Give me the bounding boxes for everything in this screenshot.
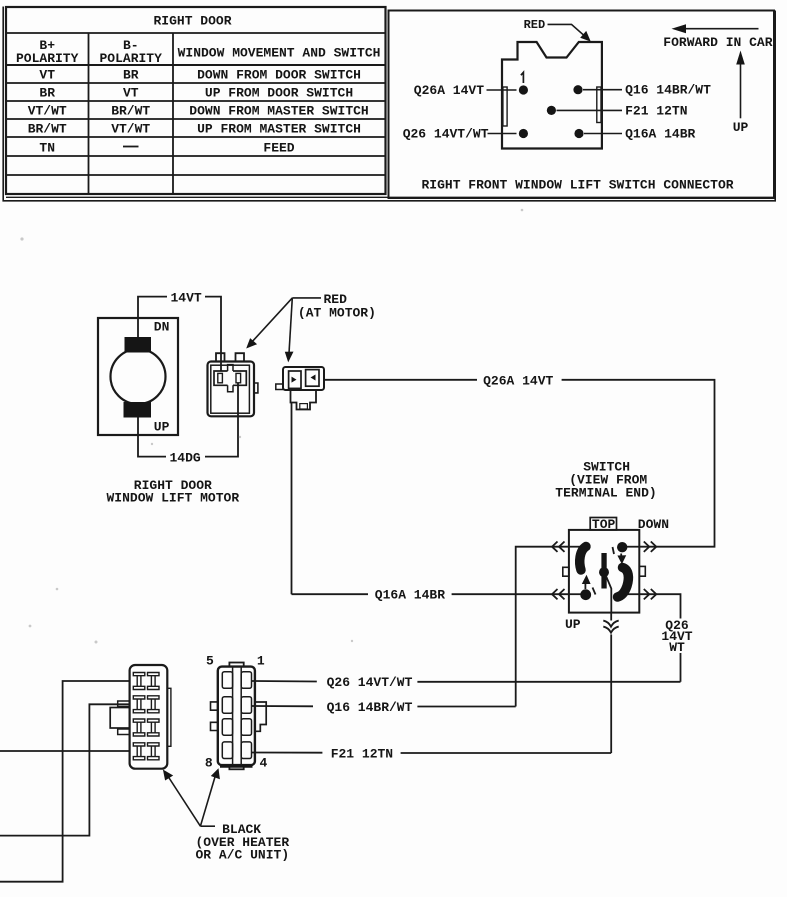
connector C1 right bump — [254, 383, 258, 393]
connector C4 left tab upper — [211, 702, 218, 710]
svg-text:UP FROM DOOR SWITCH: UP FROM DOOR SWITCH — [205, 86, 353, 101]
leader to pin B — [583, 89, 622, 91]
table row line 3 — [6, 118, 386, 120]
svg-text:Q26A 14VT: Q26A 14VT — [414, 83, 484, 98]
connector C1 outer shell — [208, 362, 255, 417]
svg-text:14VT: 14VT — [171, 290, 202, 305]
leader arrow to C1 — [251, 298, 293, 344]
connector C4 cavity r1 right — [241, 672, 251, 689]
svg-text:VT/WT: VT/WT — [111, 122, 150, 137]
svg-text:POLARITY: POLARITY — [16, 51, 79, 66]
connector C4 cavity r4 left — [222, 742, 232, 759]
svg-text:FORWARD IN CAR: FORWARD IN CAR — [663, 35, 772, 50]
connector C4 cavity r3 left — [222, 719, 232, 736]
table row line under title — [6, 32, 386, 34]
wire switch bottom right to Q26 vertical — [639, 594, 680, 618]
switch TOP tag box — [590, 518, 616, 530]
svg-text:8: 8 — [205, 756, 213, 771]
svg-text:RED: RED — [524, 18, 546, 32]
wire Q26 14VT/WT right segment — [417, 681, 680, 683]
motor brush bottom — [124, 402, 152, 418]
inline connector chevrons — [603, 621, 618, 633]
connector C4 left tab lower — [211, 722, 218, 730]
wire Q26A 14VT to switch down — [562, 380, 715, 547]
connector C3 left tab upper — [118, 701, 130, 707]
wire Q16 14BR/WT left segment — [252, 705, 314, 707]
wire motor top to 14VT — [138, 297, 167, 337]
svg-text:Q26A 14VT: Q26A 14VT — [483, 373, 553, 388]
chevron terminal left bottom — [552, 589, 565, 599]
svg-text:(AT MOTOR): (AT MOTOR) — [298, 305, 376, 320]
table row line 4 — [6, 136, 386, 138]
connector C3 left tab big — [110, 708, 129, 729]
switch left arrow up — [584, 582, 586, 589]
svg-text:DOWN FROM DOOR SWITCH: DOWN FROM DOOR SWITCH — [197, 68, 361, 83]
svg-text:Q16 14BR/WT: Q16 14BR/WT — [625, 83, 711, 98]
terminal r1c1 — [133, 673, 145, 690]
svg-text:Q26 14VT/WT: Q26 14VT/WT — [327, 675, 413, 690]
connector C2 bottom box — [300, 404, 308, 409]
switch left side tab — [563, 567, 569, 576]
connector C1 terminal stub up — [228, 365, 233, 371]
terminal r3c2 — [148, 719, 160, 736]
wire inline connector to F21 — [610, 635, 612, 754]
pin D Q26 14VT/WT — [519, 129, 528, 138]
leader arrow to C4 — [200, 774, 216, 827]
svg-text:Q16A 14BR: Q16A 14BR — [625, 126, 695, 141]
pin C F21 12TN — [547, 106, 556, 115]
connector C1 terminal right bracket — [233, 371, 246, 385]
connector C1 terminal left bracket — [214, 371, 228, 385]
leader to pin C — [557, 109, 623, 111]
connector C2 terminal right — [306, 370, 319, 387]
svg-text:DOWN FROM MASTER SWITCH: DOWN FROM MASTER SWITCH — [189, 104, 368, 119]
svg-text:BR: BR — [39, 86, 55, 101]
table column line 1 — [88, 33, 90, 194]
table column line 2 — [172, 33, 174, 194]
connector C4 cavity r4 right — [241, 742, 251, 759]
pin B Q16 14BR/WT — [573, 85, 582, 94]
connector J1 left lock slot — [503, 87, 507, 126]
leader arrow to C2 — [289, 298, 292, 355]
motor M1 armature circle — [111, 349, 166, 404]
arrow FORWARD IN CAR — [684, 28, 759, 30]
svg-text:F21 12TN: F21 12TN — [625, 103, 687, 118]
wire stub into box left top — [569, 546, 582, 548]
table row line 5 — [6, 155, 386, 157]
svg-text:WINDOW MOVEMENT AND SWITCH: WINDOW MOVEMENT AND SWITCH — [178, 46, 381, 61]
table row line under header — [6, 64, 386, 66]
switch common diagonal — [606, 576, 611, 613]
svg-text:TN: TN — [39, 141, 55, 156]
connector C2 terminal mark right — [311, 375, 316, 381]
svg-text:5: 5 — [206, 653, 214, 668]
connector C1 terminal bar left — [218, 373, 223, 382]
switch center dot — [599, 567, 609, 577]
connector C3 left tab lower — [118, 729, 130, 735]
connector C4 right bump — [255, 702, 266, 731]
leader to pin A — [487, 89, 517, 91]
svg-text:VT/WT: VT/WT — [28, 104, 67, 119]
svg-text:BR/WT: BR/WT — [111, 104, 150, 119]
connector C1 inner shell — [211, 365, 250, 413]
switch right side tab — [639, 566, 645, 576]
wire C3 pin to left edge top — [0, 681, 130, 882]
switch contact right dot — [617, 542, 627, 552]
connector C3 terminals grid — [133, 673, 159, 760]
outer frame inner bottom line — [6, 196, 774, 198]
svg-text:UP FROM MASTER SWITCH: UP FROM MASTER SWITCH — [197, 122, 361, 137]
connector C1 terminal bar right — [236, 373, 241, 382]
leader RED AT MOTOR — [292, 297, 321, 299]
switch right tick — [613, 547, 615, 554]
terminal r2c1 — [133, 696, 145, 713]
svg-text:VT: VT — [123, 86, 139, 101]
svg-text:14DG: 14DG — [170, 450, 201, 465]
table row line 2 — [6, 100, 386, 102]
wire Q26A 14VT from C2 — [324, 379, 477, 381]
connector C2 terminal mark left — [292, 377, 297, 383]
table row line 6 — [6, 174, 386, 176]
wire stub into box right top — [626, 546, 639, 548]
switch center common bar — [601, 553, 606, 589]
svg-text:Q16A 14BR: Q16A 14BR — [375, 588, 445, 603]
wire switch top left to Q16 vertical — [516, 547, 569, 707]
table RIGHT DOOR border — [6, 7, 386, 194]
connector J1 body outline — [502, 42, 602, 149]
connector C3 right rib — [167, 688, 171, 746]
connector C4 bottom tab — [229, 765, 243, 769]
wire motor bottom to 14DG — [138, 418, 166, 457]
terminal r2c2 — [148, 696, 160, 713]
svg-text:UP: UP — [154, 419, 170, 434]
svg-text:1: 1 — [257, 653, 265, 668]
pin E Q16A 14BR — [574, 129, 583, 138]
chevron terminal right top — [644, 542, 657, 552]
connector J1 right lock slot — [597, 87, 601, 123]
svg-text:RIGHT DOOR: RIGHT DOOR — [154, 14, 232, 29]
switch contact right bean — [618, 568, 629, 598]
connector C2 terminal left — [289, 371, 301, 388]
terminal r1c2 — [148, 673, 160, 690]
pin A Q26A 14VT — [519, 85, 528, 94]
connector C4 body — [218, 667, 255, 766]
svg-text:DN: DN — [154, 319, 170, 334]
switch S1 body — [569, 530, 639, 613]
connector C1 terminal stub down — [228, 385, 233, 392]
motor M1 housing — [98, 318, 178, 435]
svg-text:UP: UP — [733, 120, 749, 135]
wire stub into box left bottom — [569, 593, 581, 595]
arrow UP — [740, 62, 742, 118]
svg-text:DOWN: DOWN — [638, 517, 669, 532]
pin 1 marker — [521, 72, 524, 83]
svg-text:F21 12TN: F21 12TN — [331, 746, 393, 761]
svg-text:POLARITY: POLARITY — [100, 51, 163, 66]
switch contact left dot — [580, 589, 591, 600]
right panel border — [389, 11, 775, 199]
wire C2 down to Q16A 14BR — [291, 403, 293, 595]
chevron terminal left top — [552, 542, 565, 552]
chevron terminal right bottom — [644, 589, 657, 599]
outer frame around top figure — [3, 7, 775, 201]
motor brush top — [125, 337, 152, 353]
svg-text:OR A/C UNIT): OR A/C UNIT) — [196, 848, 290, 863]
connector C1 top tab right — [236, 353, 245, 361]
leader from RED — [548, 24, 587, 37]
wire switch common down — [610, 613, 612, 621]
wire Q26 14VT/WT left segment — [252, 680, 317, 683]
svg-text:BR: BR — [123, 68, 139, 83]
svg-text:FEED: FEED — [263, 141, 294, 156]
terminal r4c1 — [133, 743, 145, 760]
connector C4 cavity r2 left — [222, 697, 232, 714]
svg-text:RIGHT FRONT WINDOW LIFT SWITCH: RIGHT FRONT WINDOW LIFT SWITCH CONNECTOR — [422, 177, 734, 192]
connector C4 center channel — [232, 667, 234, 766]
connector C3 body — [130, 665, 168, 769]
connector C4 cavity r3 right — [241, 719, 251, 736]
svg-text:TOP: TOP — [592, 517, 616, 532]
wire Q16A 14BR right segment — [452, 593, 569, 595]
leader arrow to C3 — [167, 774, 201, 826]
scan speckles — [20, 209, 523, 644]
svg-text:TERMINAL END): TERMINAL END) — [555, 485, 656, 500]
leader to pin E — [584, 133, 622, 135]
wire stub into box right bottom — [626, 593, 639, 595]
svg-text:UP: UP — [565, 617, 581, 632]
wire F21 12TN right segment — [401, 752, 612, 754]
terminal r4c2 — [148, 743, 160, 760]
svg-text:Q16 14BR/WT: Q16 14BR/WT — [327, 700, 413, 715]
leader junction BLACK — [200, 825, 215, 827]
wire Q16 14BR/WT right segment — [417, 706, 515, 708]
wire C3 pin to left edge middle — [0, 704, 130, 835]
svg-text:Q26 14VT/WT: Q26 14VT/WT — [403, 126, 489, 141]
wire C3 pin to left edge straight — [0, 750, 130, 752]
connector C4 bottom thick edge — [220, 765, 253, 768]
svg-text:WT: WT — [669, 640, 685, 655]
svg-text:WINDOW LIFT MOTOR: WINDOW LIFT MOTOR — [107, 490, 240, 505]
terminal r3c1 — [133, 719, 145, 736]
switch left tick — [593, 588, 596, 595]
connector C2 body — [283, 367, 324, 390]
svg-text:4: 4 — [260, 756, 268, 771]
connector C4 cavity r2 right — [241, 697, 251, 714]
wire Q16A 14BR left segment — [292, 593, 369, 595]
table row line 1 — [6, 82, 386, 84]
arrowhead RED leader — [580, 31, 591, 42]
connector C4 top tab — [229, 663, 243, 667]
wire 14DG to connector C1 — [205, 383, 238, 457]
connector C1 top tab left — [216, 353, 225, 361]
switch right arrow down — [620, 554, 622, 558]
wire F21 12TN left segment — [252, 752, 323, 754]
connector C2 bottom protrusion — [291, 390, 317, 410]
connector C2 left wing — [276, 384, 283, 390]
switch contact left bean — [580, 547, 586, 571]
svg-text:VT: VT — [39, 68, 55, 83]
leader to pin D — [488, 133, 517, 135]
connector C4 cavity r1 left — [222, 672, 232, 689]
svg-text:BR/WT: BR/WT — [28, 122, 67, 137]
wire 14VT to connector C1 — [205, 297, 221, 371]
